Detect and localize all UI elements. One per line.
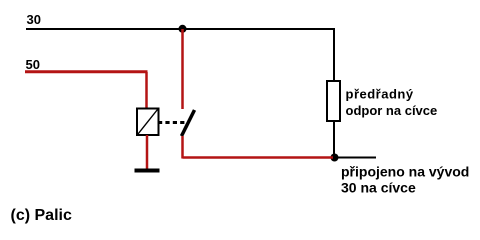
wire: red vertical drop to relay coil	[145, 72, 148, 109]
wire: red from coil to ground	[146, 135, 149, 170]
wire: black bus from terminal 30	[26, 28, 335, 30]
switch S1 blade (relay contact)	[182, 110, 195, 136]
wire: black vertical drop to resistor	[333, 29, 335, 82]
wire: black stub right of node B	[334, 157, 376, 159]
svg-text:30 na cívce: 30 na cívce	[341, 180, 416, 196]
wire: red from switch lower contact down	[181, 136, 184, 159]
svg-text:předřadný: předřadný	[346, 87, 414, 102]
svg-text:(c) Palic: (c) Palic	[11, 207, 72, 224]
ground	[135, 169, 160, 173]
svg-text:připojeno na vývod: připojeno na vývod	[341, 164, 469, 180]
relay coil K1 diagonal	[138, 110, 158, 135]
wire: red horizontal from switch to node B	[183, 156, 334, 159]
relay coil K1 body	[137, 109, 159, 136]
dashed actuation link coil-to-contact	[158, 121, 186, 124]
svg-text:30: 30	[27, 12, 41, 27]
node B (junction at resistor output)	[331, 154, 339, 162]
resistor R1 (ballast resistor)	[327, 81, 340, 121]
wire: black vertical from resistor to node B	[333, 121, 335, 157]
svg-text:50: 50	[26, 57, 40, 72]
wire: red bus from terminal 50	[25, 70, 148, 73]
svg-text:odpor na cívce: odpor na cívce	[346, 103, 438, 118]
node A (junction on 30 bus)	[179, 25, 187, 33]
wire: red vertical from node A to switch contact	[181, 29, 184, 109]
